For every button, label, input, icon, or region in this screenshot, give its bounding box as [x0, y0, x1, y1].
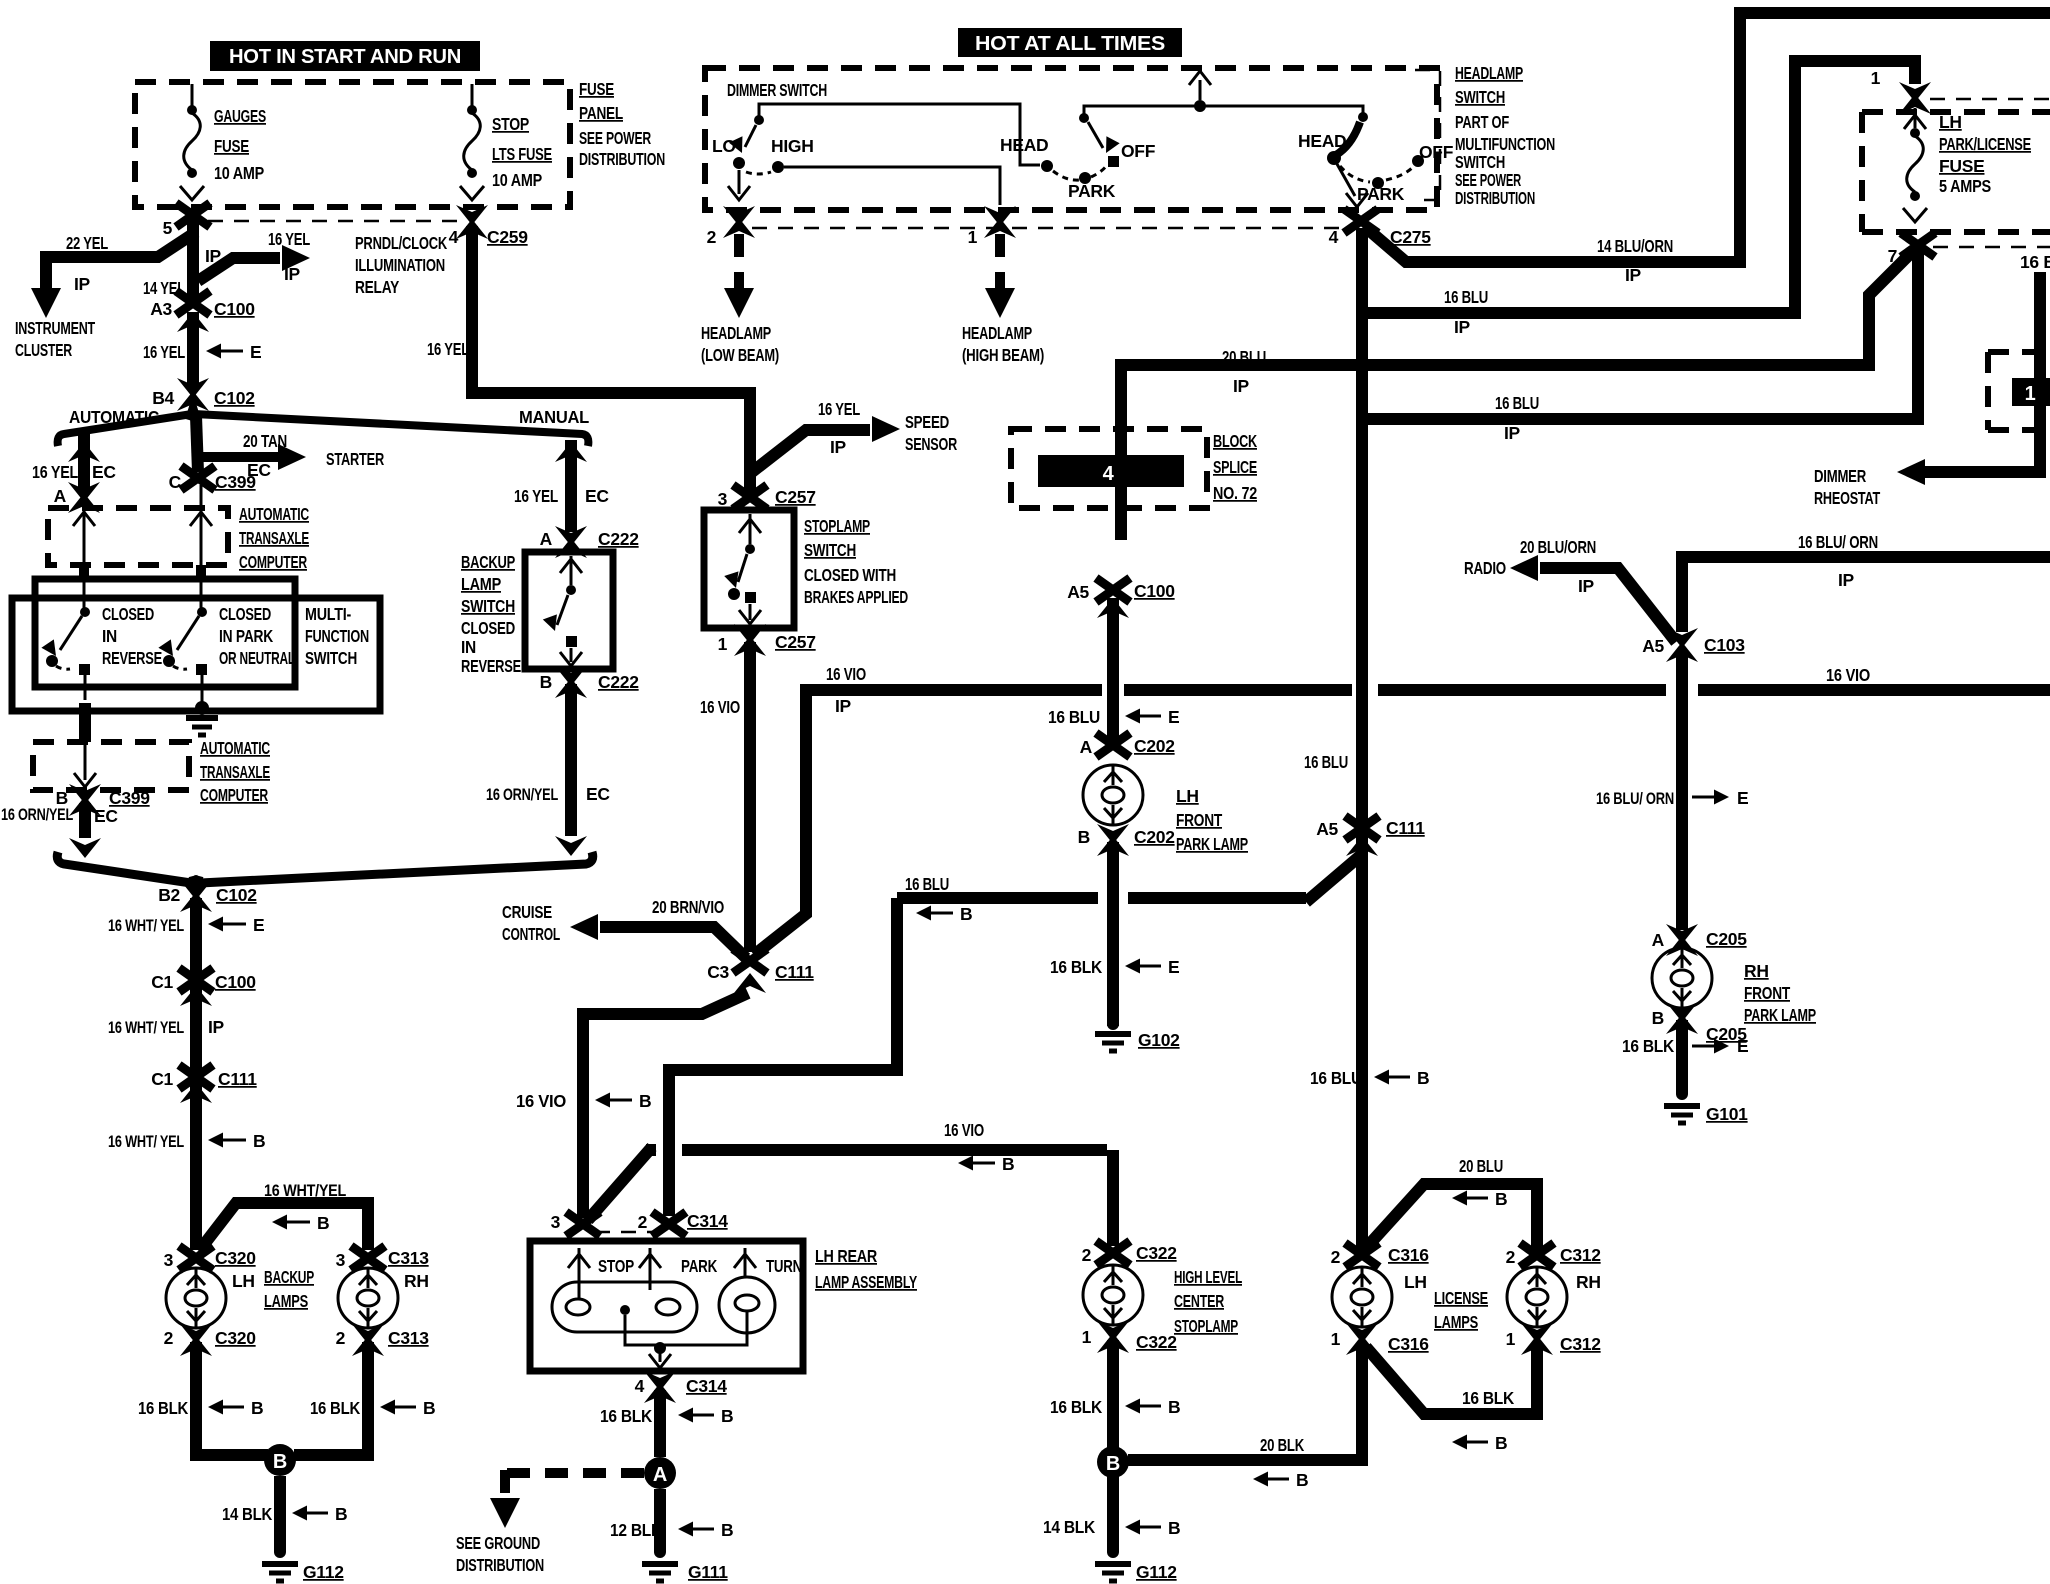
svg-text:B: B	[1168, 1518, 1180, 1538]
wire 16 BLK rear lamp to junction A	[654, 1390, 666, 1457]
svg-text:HEADLAMP: HEADLAMP	[701, 323, 771, 343]
connector 3 C313	[336, 1246, 430, 1291]
svg-text:1: 1	[2025, 383, 2036, 405]
label 16 BLU IP (upper)	[1444, 287, 1488, 337]
wire 22 YEL to instrument cluster	[31, 232, 196, 318]
svg-text:4: 4	[635, 1376, 645, 1396]
connector A3 C100	[150, 291, 255, 332]
label 20 BLU/ORN IP	[1520, 537, 1596, 596]
svg-text:5: 5	[163, 218, 173, 238]
svg-text:RHEOSTAT: RHEOSTAT	[1814, 488, 1880, 508]
svg-text:IN PARK: IN PARK	[219, 626, 274, 646]
svg-text:HOT IN START AND RUN: HOT IN START AND RUN	[229, 46, 461, 68]
label 12 BLK with B arrow	[610, 1520, 733, 1540]
connector 1 (park/license fuse)	[1871, 68, 1931, 114]
label LO HIGH	[712, 136, 814, 156]
wire 20 BLU/ORN to radio	[1510, 555, 1676, 642]
svg-text:LAMPS: LAMPS	[264, 1291, 308, 1311]
svg-text:12 BLK: 12 BLK	[610, 1520, 663, 1540]
wire 16 YEL EC manual branch	[555, 440, 587, 532]
svg-text:16 VIO: 16 VIO	[516, 1091, 566, 1111]
wire LH backup to junction B	[196, 1342, 268, 1455]
switch stoplamp internal	[724, 514, 761, 624]
wire from box top to gauges fuse	[191, 84, 194, 106]
label 16 YEL EC / A	[32, 462, 116, 506]
connector A5 C103	[1642, 628, 1745, 662]
svg-text:RADIO: RADIO	[1464, 558, 1506, 578]
svg-text:BACKUP: BACKUP	[461, 552, 515, 572]
connector 2 C313	[336, 1324, 430, 1356]
connector 2 C322	[1082, 1241, 1178, 1265]
svg-text:A5: A5	[1067, 582, 1089, 602]
svg-text:FUSE: FUSE	[1939, 156, 1984, 176]
wire 16 BLU/ORN IP from right	[1682, 557, 2050, 632]
svg-text:C312: C312	[1560, 1245, 1601, 1265]
svg-text:IP: IP	[830, 437, 847, 457]
wire 16 VIO from C3 to rear lamp pin 3	[583, 993, 748, 1218]
connector B4 C102	[152, 378, 255, 411]
wire 20 BLU bridge to RH license	[1366, 1184, 1537, 1250]
splice marker 1 (page edge)	[2012, 378, 2050, 406]
svg-text:A: A	[1080, 737, 1093, 757]
svg-text:E: E	[253, 915, 264, 935]
label 16 BLK with B arrow (LH)	[138, 1398, 263, 1418]
svg-text:G112: G112	[1136, 1562, 1177, 1582]
svg-text:LO: LO	[712, 136, 736, 156]
svg-text:IP: IP	[1454, 317, 1471, 337]
wire B2 column down	[190, 898, 202, 1250]
svg-text:PRNDL/CLOCK: PRNDL/CLOCK	[355, 233, 447, 253]
svg-text:AUTOMATIC: AUTOMATIC	[239, 504, 309, 524]
svg-text:C316: C316	[1388, 1334, 1429, 1354]
svg-text:B: B	[335, 1504, 347, 1524]
svg-text:A: A	[54, 486, 67, 506]
svg-text:OFF: OFF	[1419, 142, 1454, 162]
svg-text:CLUSTER: CLUSTER	[15, 340, 72, 360]
svg-text:(LOW BEAM): (LOW BEAM)	[701, 345, 779, 365]
svg-text:LH REAR: LH REAR	[815, 1246, 878, 1266]
lamp RH backup	[338, 1268, 398, 1328]
box multifunction switch outer	[12, 598, 380, 711]
svg-text:IP: IP	[1233, 376, 1250, 396]
label 14 BLK with B arrow	[222, 1504, 347, 1524]
connector 2 (low beam)	[707, 206, 755, 247]
svg-text:C275: C275	[1390, 227, 1431, 247]
svg-text:SWITCH: SWITCH	[461, 596, 515, 616]
wire dashed to headlamp high beam	[985, 234, 1015, 318]
wire 16 YEL to PRNDL relay	[198, 245, 310, 281]
connector A5 C100	[1067, 578, 1175, 618]
svg-text:B: B	[721, 1520, 733, 1540]
svg-text:4: 4	[449, 227, 459, 247]
wire 16 VIO stoplamp down to C3	[744, 642, 756, 952]
label 20 TAN EC	[243, 431, 287, 480]
connector B2 C102	[158, 880, 257, 912]
switch headlamp (HEAD/OFF/PARK) right	[1327, 112, 1424, 207]
svg-text:16 B: 16 B	[2020, 252, 2050, 272]
wire 16 YEL EC automatic branch	[68, 430, 100, 490]
svg-text:20 BLU: 20 BLU	[1459, 1156, 1503, 1176]
svg-text:B: B	[1106, 1453, 1120, 1475]
wire 16 BLU/ORN down to A C205	[1676, 650, 1688, 930]
svg-text:B: B	[251, 1398, 263, 1418]
svg-text:16 YEL: 16 YEL	[143, 342, 185, 362]
svg-text:COMPUTER: COMPUTER	[239, 552, 307, 572]
svg-text:4: 4	[1103, 463, 1115, 485]
svg-text:16 VIO: 16 VIO	[1826, 665, 1870, 685]
svg-text:16 VIO: 16 VIO	[826, 664, 866, 684]
svg-text:FRONT: FRONT	[1176, 810, 1222, 830]
svg-text:C100: C100	[215, 972, 256, 992]
connector A C222	[540, 526, 640, 558]
connector face dashed (fuse right)	[1930, 98, 2050, 101]
svg-text:16 BLU: 16 BLU	[1310, 1068, 1362, 1088]
ground G112 (backup lamps)	[262, 1546, 344, 1582]
wire 16 BLU to license fuse (upper)	[1368, 61, 1915, 313]
svg-text:C222: C222	[598, 529, 639, 549]
svg-text:C257: C257	[775, 487, 816, 507]
label BACKUP LAMP SWITCH CLOSED IN REVERSE	[461, 552, 521, 676]
lamp turn signal	[719, 1248, 775, 1333]
svg-text:C320: C320	[215, 1328, 256, 1348]
svg-text:16 BLK: 16 BLK	[1622, 1036, 1675, 1056]
svg-text:16 BLK: 16 BLK	[310, 1398, 361, 1418]
label 16 WHT/YEL with B arrow	[108, 1131, 265, 1151]
svg-text:FRONT: FRONT	[1744, 983, 1790, 1003]
svg-text:B: B	[1296, 1470, 1308, 1490]
wire 16 ORN/YEL EC down to merge	[555, 684, 587, 856]
svg-text:C205: C205	[1706, 929, 1747, 949]
svg-text:BLOCK: BLOCK	[1213, 431, 1257, 451]
wire 16 BLU from C275 down	[1356, 228, 1368, 1250]
label 16 BLU with B arrow (pin2 feed)	[905, 874, 972, 924]
svg-text:16 BLK: 16 BLK	[1050, 957, 1103, 977]
svg-text:B2: B2	[158, 885, 180, 905]
svg-text:BACKUP: BACKUP	[264, 1267, 314, 1287]
svg-text:16 VIO: 16 VIO	[944, 1120, 984, 1140]
svg-text:CLOSED WITH: CLOSED WITH	[804, 565, 896, 585]
svg-text:C1: C1	[151, 972, 173, 992]
svg-text:C314: C314	[686, 1376, 727, 1396]
svg-text:IP: IP	[74, 274, 91, 294]
svg-text:TRANSAXLE: TRANSAXLE	[200, 762, 270, 782]
svg-text:FUSE: FUSE	[579, 79, 614, 99]
label BACKUP LAMPS	[264, 1267, 314, 1311]
svg-text:EC: EC	[92, 462, 116, 482]
svg-text:C111: C111	[775, 962, 814, 982]
svg-text:PARK LAMP: PARK LAMP	[1744, 1005, 1816, 1025]
connector 2 C320	[164, 1324, 257, 1356]
switch headlamp (HEAD/OFF/PARK) left	[1041, 113, 1120, 184]
svg-text:16 BLK: 16 BLK	[138, 1398, 189, 1418]
svg-text:16 YEL: 16 YEL	[818, 399, 860, 419]
connector B C205	[1652, 1002, 1748, 1044]
wire 16 YEL from C259 to stoplamp switch	[472, 226, 750, 492]
svg-text:16 BLU/ ORN: 16 BLU/ ORN	[1596, 789, 1674, 808]
svg-text:IP: IP	[208, 1017, 225, 1037]
lamp LH backup	[166, 1268, 226, 1328]
svg-text:C316: C316	[1388, 1245, 1429, 1265]
svg-text:1: 1	[968, 227, 978, 247]
wire 16 WHT/YEL branch to RH backup	[199, 1203, 368, 1251]
connector 1 C312	[1506, 1323, 1602, 1355]
label 16 WHT/YEL IP	[108, 1017, 225, 1037]
svg-text:2: 2	[707, 227, 717, 247]
svg-text:B: B	[639, 1091, 651, 1111]
svg-text:20 TAN: 20 TAN	[243, 431, 287, 451]
label 16 VIO with B arrow (pin3 drop)	[516, 1091, 651, 1111]
wire 16 BLK to G101	[1676, 1020, 1688, 1094]
svg-text:16 BLU: 16 BLU	[1048, 707, 1100, 727]
svg-text:C103: C103	[1704, 635, 1745, 655]
svg-text:C312: C312	[1560, 1334, 1601, 1354]
svg-text:B: B	[540, 672, 552, 692]
svg-text:PANEL: PANEL	[579, 103, 623, 123]
svg-text:CLOSED: CLOSED	[102, 604, 154, 624]
svg-text:HIGH: HIGH	[771, 136, 814, 156]
label 20 BLU IP	[1222, 347, 1266, 396]
svg-text:BRAKES APPLIED: BRAKES APPLIED	[804, 587, 908, 607]
svg-text:B: B	[423, 1398, 435, 1418]
ground G111	[642, 1546, 728, 1582]
wire 14 BLU/ORN from C275 to top right	[1364, 13, 2050, 262]
label 16 ORN/YEL EC	[1, 805, 118, 826]
connector 4 C259	[449, 205, 529, 247]
svg-text:C111: C111	[218, 1069, 257, 1089]
label HEAD OFF PARK (left switch)	[1000, 135, 1156, 201]
svg-text:RELAY: RELAY	[355, 277, 399, 297]
svg-text:RH: RH	[404, 1271, 429, 1291]
label STOPLAMP SWITCH CLOSED WITH BRAKES APPLIED	[804, 516, 908, 607]
label FUSE PANEL SEE POWER DISTRIBUTION	[579, 79, 665, 169]
dashed bracket for headlamp switch label	[1415, 70, 1440, 200]
connector A5 C111	[1316, 816, 1425, 856]
label 22 YEL / IP	[66, 233, 108, 294]
svg-text:LTS FUSE: LTS FUSE	[492, 144, 552, 164]
label LICENSE LAMPS	[1434, 1288, 1488, 1332]
wire 16 YEL to speed sensor	[752, 416, 900, 472]
svg-text:C322: C322	[1136, 1332, 1177, 1352]
svg-text:OFF: OFF	[1121, 141, 1156, 161]
label BLOCK SPLICE NO. 72	[1213, 431, 1257, 503]
svg-text:IN: IN	[461, 637, 476, 657]
node PRNDL/CLOCK ILLUMINATION RELAY	[355, 233, 447, 297]
svg-text:PART OF: PART OF	[1455, 112, 1509, 132]
svg-text:REVERSE: REVERSE	[102, 648, 162, 668]
node HEADLAMP (LOW BEAM)	[701, 323, 779, 365]
svg-text:HEADLAMP: HEADLAMP	[1455, 63, 1523, 83]
fuse panel dashed box (left)	[135, 82, 570, 207]
svg-text:IP: IP	[284, 264, 301, 284]
svg-text:4: 4	[1329, 227, 1339, 247]
svg-text:C257: C257	[775, 632, 816, 652]
connector face dashed (rear lamp)	[595, 1231, 655, 1234]
connector B C222	[540, 666, 640, 698]
svg-text:MULTI-: MULTI-	[305, 604, 351, 624]
svg-text:MULTIFUNCTION: MULTIFUNCTION	[1455, 134, 1555, 154]
box LH REAR LAMP ASSEMBLY	[530, 1241, 803, 1371]
wire 16 VIO diagonal to high level stoplamp	[588, 1147, 1113, 1246]
svg-text:DISTRIBUTION: DISTRIBUTION	[1455, 188, 1535, 208]
svg-text:2: 2	[164, 1328, 174, 1348]
wire 12 BLK junction A to G111	[654, 1489, 666, 1552]
svg-text:20 BLU/ORN: 20 BLU/ORN	[1520, 537, 1596, 557]
label HEADLAMP SWITCH PART OF MULTIFUNCTION SWITCH SEE POWER DISTRIBUTION	[1455, 63, 1555, 208]
svg-text:SWITCH: SWITCH	[1455, 152, 1505, 172]
connector A C399	[68, 482, 100, 513]
svg-text:C313: C313	[388, 1328, 429, 1348]
connector C C399	[169, 466, 257, 492]
svg-text:SPLICE: SPLICE	[1213, 457, 1257, 477]
wire stubs into switch box	[84, 565, 201, 580]
svg-text:STOPLAMP: STOPLAMP	[804, 516, 870, 536]
svg-text:14 BLU/ORN: 14 BLU/ORN	[1597, 236, 1673, 256]
svg-text:A: A	[540, 529, 553, 549]
wire 16 BLK to G102	[1107, 842, 1119, 1026]
label 16 BLK with E arrow	[1050, 957, 1179, 977]
svg-text:C320: C320	[215, 1248, 256, 1268]
svg-text:C202: C202	[1134, 736, 1175, 756]
wire A5 C100 to A C202	[1107, 598, 1119, 740]
svg-text:16 WHT/YEL: 16 WHT/YEL	[264, 1181, 346, 1200]
svg-text:C100: C100	[214, 299, 255, 319]
svg-text:COMPUTER: COMPUTER	[200, 785, 268, 805]
ground G101	[1664, 1088, 1748, 1124]
svg-text:PARK LAMP: PARK LAMP	[1176, 834, 1248, 854]
wire 20 BLK license to junction B	[1128, 1343, 1362, 1460]
connector face dashed line (headlamp box)	[752, 227, 1340, 230]
svg-text:FUSE: FUSE	[214, 136, 249, 156]
svg-text:DIMMER: DIMMER	[1814, 466, 1866, 486]
svg-text:2: 2	[638, 1212, 648, 1232]
wire dashed to ground distribution	[490, 1470, 644, 1528]
banner HOT AT ALL TIMES	[958, 28, 1182, 57]
svg-text:OR NEUTRAL: OR NEUTRAL	[219, 648, 295, 668]
svg-text:IN: IN	[102, 626, 117, 646]
svg-text:A3: A3	[150, 299, 172, 319]
bracket merge to B2	[57, 852, 593, 888]
label 16 VIO with B arrow (high level feed)	[944, 1120, 1014, 1174]
connector 3 C320	[164, 1246, 257, 1291]
switch dimmer LO/HIGH	[728, 115, 784, 200]
svg-text:1: 1	[1331, 1329, 1341, 1349]
svg-text:B: B	[1417, 1068, 1429, 1088]
svg-text:C399: C399	[109, 788, 150, 808]
connector 1 (high beam)	[968, 206, 1016, 247]
connector C1 C111	[151, 1065, 257, 1103]
connector 2 C312	[1506, 1243, 1602, 1292]
svg-text:B: B	[253, 1131, 265, 1151]
node INSTRUMENT CLUSTER	[15, 318, 95, 360]
svg-text:1: 1	[1871, 68, 1881, 88]
svg-text:16 BLU: 16 BLU	[1304, 752, 1348, 772]
svg-text:LAMP: LAMP	[461, 574, 502, 594]
svg-text:LICENSE: LICENSE	[1434, 1288, 1488, 1308]
svg-text:16 BLU: 16 BLU	[905, 874, 949, 894]
svg-text:22 YEL: 22 YEL	[66, 233, 108, 253]
wire headlamp switch common bus	[1084, 71, 1363, 117]
svg-text:B: B	[1078, 827, 1090, 847]
svg-text:STOPLAMP: STOPLAMP	[1174, 1316, 1238, 1336]
svg-text:20 BLU: 20 BLU	[1222, 347, 1266, 367]
node CRUISE CONTROL	[502, 902, 560, 944]
svg-text:B: B	[273, 1451, 287, 1473]
wire to dimmer rheostat	[1897, 272, 2040, 485]
svg-text:G111: G111	[688, 1562, 728, 1582]
svg-text:C111: C111	[1386, 818, 1425, 838]
svg-text:EC: EC	[94, 806, 118, 826]
label 16 BLK with B arrow (license)	[1452, 1388, 1515, 1453]
svg-text:TRANSAXLE: TRANSAXLE	[239, 528, 309, 548]
splice block no 72	[1038, 455, 1184, 487]
connector face dashed (below fuse)	[1933, 246, 2050, 249]
connector A C205	[1652, 924, 1748, 956]
label SEE GROUND DISTRIBUTION	[456, 1533, 544, 1575]
label 16 WHT/YEL with E arrow	[108, 915, 264, 935]
svg-text:10 AMP: 10 AMP	[214, 163, 265, 183]
svg-text:G101: G101	[1706, 1104, 1748, 1124]
connector C1 C100	[151, 968, 256, 1006]
svg-text:C313: C313	[388, 1248, 429, 1268]
svg-text:B: B	[1002, 1154, 1014, 1174]
svg-text:B: B	[1495, 1433, 1507, 1453]
svg-text:16 WHT/ YEL: 16 WHT/ YEL	[108, 916, 184, 935]
svg-text:DISTRIBUTION: DISTRIBUTION	[579, 149, 665, 169]
wire high level stoplamp down	[1107, 1340, 1119, 1552]
svg-text:IP: IP	[1838, 570, 1855, 590]
svg-text:GAUGES: GAUGES	[214, 106, 266, 126]
svg-text:RH: RH	[1744, 961, 1769, 981]
svg-text:CLOSED: CLOSED	[461, 618, 515, 638]
svg-text:REVERSE: REVERSE	[461, 656, 521, 676]
switch CLOSED IN PARK OR NEUTRAL	[158, 580, 207, 707]
svg-text:3: 3	[718, 489, 728, 509]
label RH FRONT PARK LAMP	[1744, 961, 1816, 1025]
svg-text:DISTRIBUTION: DISTRIBUTION	[456, 1555, 544, 1575]
svg-text:HOT AT ALL TIMES: HOT AT ALL TIMES	[975, 33, 1165, 55]
node DIMMER RHEOSTAT	[1814, 466, 1880, 508]
lamp LH front park	[1083, 765, 1143, 825]
svg-text:C3: C3	[707, 962, 729, 982]
svg-text:B4: B4	[152, 388, 174, 408]
svg-text:LAMPS: LAMPS	[1434, 1312, 1478, 1332]
svg-text:A: A	[1652, 930, 1665, 950]
svg-text:C1: C1	[151, 1069, 173, 1089]
label 16 BLU/ORN IP (top)	[1798, 532, 1878, 590]
dashed box LH PARK/LICENSE FUSE	[1862, 112, 2050, 232]
svg-text:20 BRN/VIO: 20 BRN/VIO	[652, 897, 724, 917]
connector face dashed line (left fuse panel)	[208, 220, 465, 223]
svg-text:2: 2	[336, 1328, 346, 1348]
wire 20 TAN to starter	[200, 444, 306, 470]
svg-text:1: 1	[718, 634, 728, 654]
svg-text:16 ORN/YEL: 16 ORN/YEL	[1, 805, 73, 824]
svg-text:C102: C102	[214, 388, 255, 408]
fuse GAUGES FUSE 10 AMP	[180, 105, 204, 200]
svg-text:SEE POWER: SEE POWER	[579, 128, 651, 148]
label AUTOMATIC TRANSAXLE COMPUTER (upper)	[239, 504, 309, 572]
svg-text:G112: G112	[303, 1562, 344, 1582]
dashed box (page edge connector)	[1988, 352, 2050, 430]
svg-text:STOP: STOP	[598, 1256, 634, 1276]
dashed box headlamp/dimmer switch	[705, 68, 1437, 210]
label GAUGES FUSE 10 AMP	[214, 106, 266, 183]
svg-text:A5: A5	[1642, 636, 1664, 656]
connector 3 C314	[551, 1212, 600, 1236]
connector 1 C257	[718, 624, 816, 656]
svg-text:SPEED: SPEED	[905, 412, 949, 432]
label AUTOMATIC TRANSAXLE COMPUTER (lower)	[200, 738, 270, 805]
